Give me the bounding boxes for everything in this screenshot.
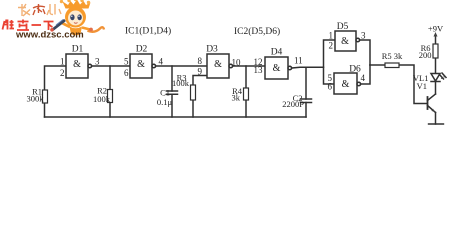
svg-text:D3: D3	[206, 45, 218, 55]
watermark faint text zhao xin pian	[18, 4, 61, 16]
svg-text:3k: 3k	[232, 93, 241, 103]
pin 3 of D5	[361, 31, 366, 41]
svg-text:&: &	[273, 63, 281, 74]
svg-text:100k: 100k	[93, 94, 111, 104]
wire: ground rail	[45, 116, 307, 118]
pin 4 of D6	[361, 73, 366, 83]
label D6	[349, 65, 361, 75]
resistor R3	[191, 85, 196, 100]
svg-text:300k: 300k	[27, 94, 45, 104]
label V1	[417, 81, 427, 91]
svg-text:D5: D5	[337, 22, 349, 32]
label R5 3k	[382, 51, 403, 61]
wire: R3 branch to D3 pin 9	[193, 76, 207, 118]
resistor R2	[108, 90, 113, 103]
svg-text:&: &	[214, 59, 222, 70]
label R1 300k	[27, 87, 45, 104]
svg-text:V1: V1	[417, 81, 427, 91]
svg-text:4: 4	[159, 57, 164, 67]
wire: splitter to D5 and D6 inputs	[324, 40, 336, 84]
svg-text:8: 8	[198, 56, 203, 66]
pin 9	[198, 67, 203, 77]
NAND gate D1	[66, 54, 92, 78]
pin 6 of D6	[328, 82, 333, 92]
svg-text:200: 200	[419, 50, 432, 60]
resistor R4	[244, 88, 249, 100]
label R4 3k	[232, 86, 243, 103]
svg-text:6: 6	[328, 82, 333, 92]
wire: D5 output to junction	[360, 40, 370, 65]
ground	[429, 123, 444, 125]
svg-text:4: 4	[361, 73, 366, 83]
svg-text:6: 6	[124, 68, 129, 78]
svg-text:IC1(D1,D4): IC1(D1,D4)	[125, 26, 171, 37]
label D1	[72, 45, 84, 55]
watermark text weiku yixia	[3, 20, 54, 31]
resistor R1	[43, 90, 48, 103]
capacitor C1	[167, 91, 178, 94]
wire: emitter down	[435, 113, 437, 125]
svg-text:R5 3k: R5 3k	[382, 51, 403, 61]
pin 13	[254, 65, 264, 75]
svg-text:D1: D1	[72, 45, 84, 55]
pin 5	[124, 57, 129, 67]
wire: D4 pin 13 stub	[266, 66, 270, 76]
LED VL1	[431, 73, 446, 82]
pin 5 of D6	[328, 73, 333, 83]
label VL1	[413, 73, 429, 83]
watermark logo	[3, 0, 105, 41]
pin 11	[294, 56, 303, 66]
label D5	[337, 22, 349, 32]
wire: D2 output to D3 pin 8	[156, 65, 207, 67]
label D4	[271, 48, 283, 58]
pin 6	[124, 68, 129, 78]
svg-text:&: &	[137, 59, 145, 70]
wire: D6 output to junction	[361, 65, 370, 84]
label R2 100k	[93, 86, 111, 104]
wire: supply arrow down to R6	[434, 32, 438, 44]
pin 12	[254, 57, 263, 67]
svg-text:www.dzsc.com: www.dzsc.com	[15, 30, 84, 41]
label D2	[136, 45, 148, 55]
watermark mascot	[50, 0, 104, 35]
svg-text:D4: D4	[271, 48, 283, 58]
svg-text:D6: D6	[349, 65, 361, 75]
svg-text:+9V: +9V	[428, 24, 444, 34]
svg-text:5: 5	[124, 57, 129, 67]
wire: R4 branch	[245, 66, 247, 117]
svg-text:2200P: 2200P	[282, 99, 304, 109]
wire: D4 output to splitter	[292, 66, 324, 69]
wire: C2 branch	[305, 67, 307, 117]
pin 8	[198, 56, 203, 66]
svg-text:3: 3	[95, 57, 100, 67]
svg-text:9: 9	[198, 67, 203, 77]
pin 10	[232, 58, 242, 68]
wire: junction through R5 to base of V1	[370, 65, 427, 104]
label D3	[206, 45, 218, 55]
pin 2 of D5	[329, 41, 334, 51]
label C2 2200P	[282, 93, 304, 109]
svg-text:2: 2	[329, 41, 334, 51]
pin 2	[60, 68, 65, 78]
wire: LED cathode to collector	[435, 82, 437, 95]
wire: C1 branch	[171, 66, 173, 117]
svg-text:IC2(D5,D6): IC2(D5,D6)	[234, 26, 280, 37]
wire: input node to D1 and R1 branch	[45, 66, 67, 117]
NAND gate D4	[265, 57, 292, 79]
NAND gate D2	[130, 54, 156, 78]
label R3 100k	[172, 73, 190, 89]
wire: D1 output to D2	[92, 65, 130, 67]
svg-text:D2: D2	[136, 45, 148, 55]
pin 3	[95, 57, 100, 67]
svg-text:3: 3	[361, 31, 366, 41]
pin 1 of D5	[329, 31, 334, 41]
pin 4	[159, 57, 164, 67]
resistor R6	[433, 44, 438, 74]
transistor V1	[428, 94, 436, 113]
resistor R5	[385, 63, 399, 68]
pin 1	[60, 57, 65, 67]
label IC2	[234, 26, 280, 37]
svg-text:&: &	[73, 59, 81, 70]
label R6 200	[419, 43, 432, 60]
svg-text:0.1μ: 0.1μ	[157, 97, 173, 107]
svg-text:100k: 100k	[172, 78, 190, 88]
NAND gate D3	[207, 54, 233, 78]
label C1 0.1u	[157, 88, 173, 107]
capacitor C2	[301, 99, 312, 103]
svg-text:1: 1	[329, 31, 334, 41]
svg-text:&: &	[342, 79, 350, 90]
svg-text:&: &	[341, 36, 349, 47]
NAND gate D6	[334, 73, 361, 94]
svg-text:2: 2	[60, 68, 65, 78]
supply +9V	[428, 24, 444, 34]
svg-text:1: 1	[60, 57, 65, 67]
svg-text:13: 13	[254, 65, 264, 75]
wire: D3 output to D4 input	[233, 65, 265, 67]
NAND gate D5	[335, 31, 360, 51]
label IC1	[125, 26, 171, 37]
wire: R2 branch	[109, 66, 111, 117]
svg-text:11: 11	[294, 56, 303, 66]
watermark url	[15, 30, 84, 41]
